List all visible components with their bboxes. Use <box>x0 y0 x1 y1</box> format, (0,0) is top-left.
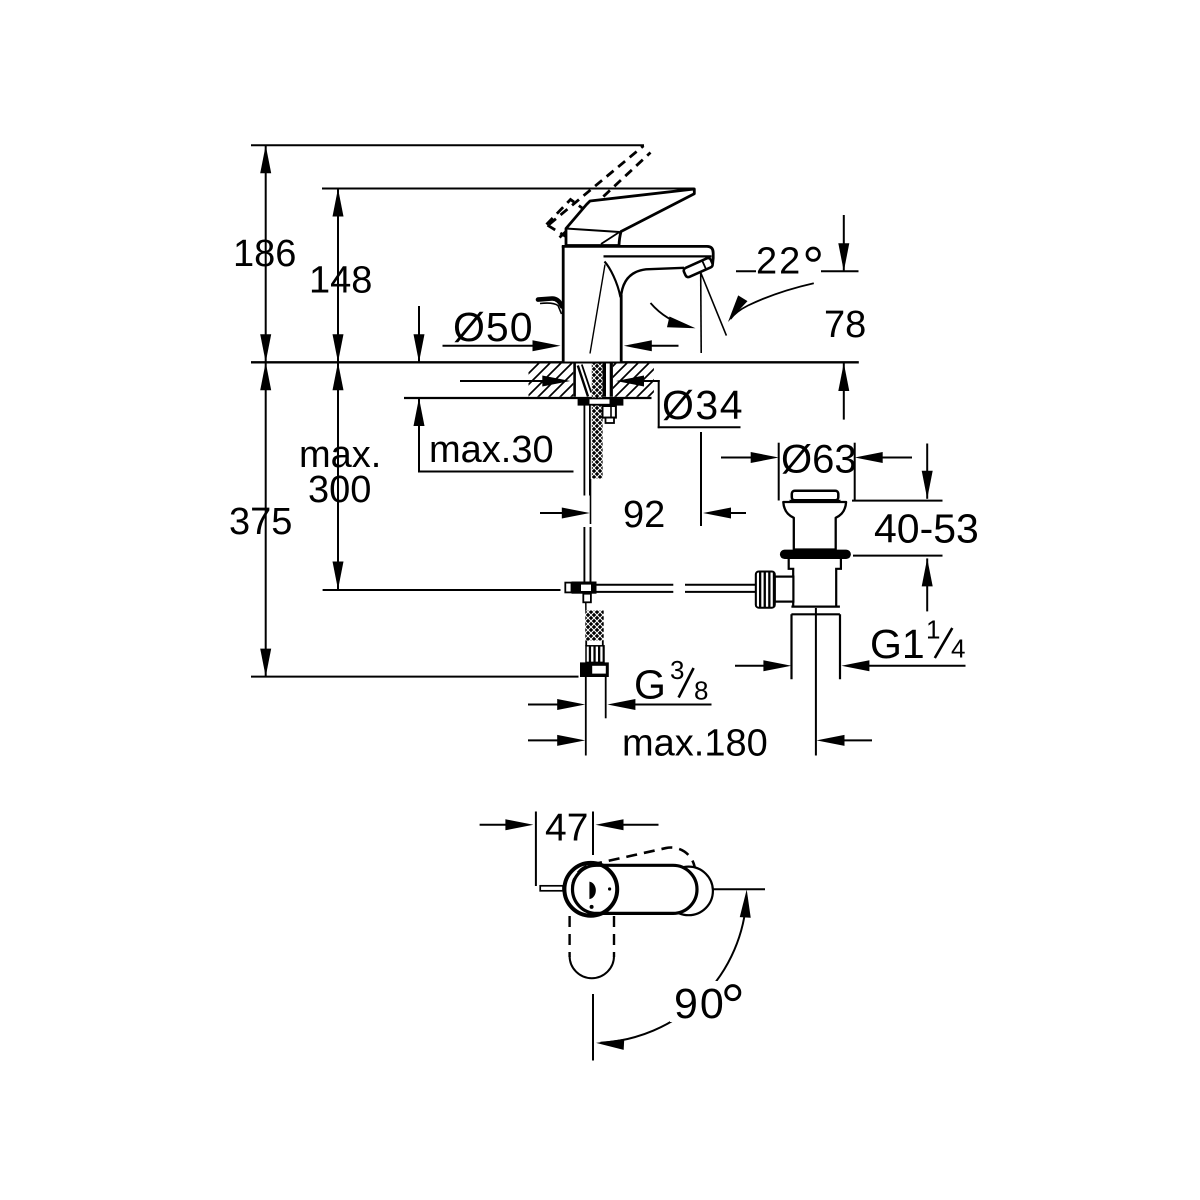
top view valve thick circle <box>564 863 617 916</box>
wire 22deg reference line <box>736 270 859 272</box>
svg-text:3: 3 <box>670 655 684 685</box>
node 92 extension line left <box>590 479 592 524</box>
dimension G1 1/4 line with arrows <box>735 665 764 667</box>
svg-text:G1: G1 <box>870 621 925 667</box>
countertop hatch left block <box>529 364 574 397</box>
clamp screw boss <box>603 406 616 418</box>
linkage lower stub <box>583 594 591 603</box>
svg-text:Ø63: Ø63 <box>781 438 857 482</box>
faucet aerator <box>683 257 714 278</box>
drain side knurled knob <box>756 572 775 608</box>
top view lever capsule <box>573 865 698 913</box>
wire 375 bottom reference line <box>251 676 579 678</box>
dimension O63 extension lines <box>778 443 780 501</box>
faucet cap underside line <box>604 255 712 257</box>
faucet left inlet hook <box>538 298 562 306</box>
drain knob neck <box>775 577 794 602</box>
dimension 40-53 vertical line <box>926 444 928 499</box>
drain tailpipe <box>790 614 792 679</box>
flow direction arc with arrowhead <box>651 303 691 327</box>
top view lever left stub <box>540 886 563 891</box>
faucet handle dashed raised position <box>547 146 651 249</box>
dimension G3/8 line with arrows <box>528 704 558 706</box>
drain thread rings <box>791 605 840 607</box>
svg-text:max.180: max.180 <box>622 723 768 765</box>
linkage coupling block <box>572 582 597 594</box>
pull rod upper tube <box>583 405 585 496</box>
svg-text:1: 1 <box>926 615 940 645</box>
faucet spout underside <box>621 268 684 298</box>
90deg arc with arrowheads <box>601 897 747 1043</box>
dimension 148 vertical line <box>337 189 339 590</box>
mounting flange washer <box>579 398 623 404</box>
faucet spout inner fillet <box>605 262 621 298</box>
dimension 47 line with arrows <box>480 824 506 826</box>
dimension max.30 vertical line <box>418 306 420 362</box>
dimension 90deg label <box>670 981 745 1022</box>
drain funnel body <box>783 502 846 550</box>
pull rod lower section <box>583 527 585 582</box>
22deg leader arc with arrowhead <box>731 283 814 319</box>
svg-text:148: 148 <box>309 260 372 302</box>
horizontal linkage rod <box>597 584 674 586</box>
svg-text:max.30: max.30 <box>429 429 554 471</box>
wire top reference line 186 <box>251 144 644 146</box>
mounting hole left edge <box>573 364 576 397</box>
dimension max.180 line with arrows <box>528 739 558 741</box>
svg-text:22: 22 <box>756 241 802 283</box>
wire countertop bottom line <box>404 397 652 399</box>
dimension 40-53 reference lines <box>852 500 943 502</box>
dimension max.30 underline <box>418 471 574 473</box>
22deg angle vertical reference <box>700 273 703 354</box>
90deg angle horizontal reference <box>714 888 766 890</box>
threaded shank braided column <box>592 364 603 479</box>
top view dashed 90deg rotated handle <box>570 916 614 978</box>
dimension O34 leader box <box>658 380 660 428</box>
svg-text:G: G <box>634 662 666 708</box>
dimension 186 vertical line <box>265 145 267 676</box>
svg-text:78: 78 <box>824 304 866 346</box>
faucet body left edge <box>562 246 565 362</box>
faucet top cap <box>562 246 713 264</box>
faucet handle lever <box>566 189 694 246</box>
top view cartridge mark <box>589 882 595 900</box>
dimension 78 vertical line <box>843 215 845 271</box>
wire reference line 148 <box>322 188 695 190</box>
mounting wedge diagonals <box>578 366 588 397</box>
svg-text:40-53: 40-53 <box>874 506 979 552</box>
faucet body and spout silhouette <box>563 246 713 361</box>
top view dashed rotated lever <box>568 843 700 917</box>
supply hose tail <box>585 677 587 756</box>
drain body under flange <box>789 559 841 606</box>
svg-text:90: 90 <box>674 980 726 1028</box>
faucet body right edge <box>620 295 623 362</box>
wire pull-rod level reference line <box>323 589 561 591</box>
svg-text:375: 375 <box>229 501 292 543</box>
svg-text:47: 47 <box>545 807 588 850</box>
supply hose striped fitting <box>586 646 604 663</box>
svg-text:92: 92 <box>623 494 665 536</box>
svg-text:300: 300 <box>308 469 371 511</box>
countertop hatch right block <box>613 364 654 397</box>
22deg angle slanted reference <box>701 273 727 336</box>
dimension O50 line with arrows <box>443 345 534 347</box>
svg-text:Ø34: Ø34 <box>662 382 744 428</box>
mounting hole right bars <box>603 364 606 397</box>
svg-text:186: 186 <box>233 233 296 275</box>
dimension O63 line with arrows <box>721 457 752 459</box>
node 92 extension line right <box>700 432 702 526</box>
dimension 47 extension lines <box>535 812 537 887</box>
supply hose braided section <box>585 611 603 641</box>
supply hose end nut G3/8 <box>580 662 609 677</box>
linkage left stub <box>565 583 571 593</box>
dimension O34 line with arrows <box>460 380 543 382</box>
drain center pull rod <box>815 608 817 756</box>
faucet body reflection line <box>590 265 605 354</box>
wire countertop surface line <box>251 361 859 363</box>
top view spout circle <box>664 867 713 916</box>
dimension 92 line with arrows <box>540 512 562 514</box>
supply hose collar gap <box>585 641 587 647</box>
svg-text:Ø50: Ø50 <box>453 304 534 350</box>
svg-text:4: 4 <box>951 634 965 664</box>
drain pop-up waste cap <box>792 491 839 500</box>
svg-text:8: 8 <box>694 676 708 706</box>
drain O-ring seal <box>780 550 851 559</box>
90deg angle center line <box>592 994 594 1061</box>
